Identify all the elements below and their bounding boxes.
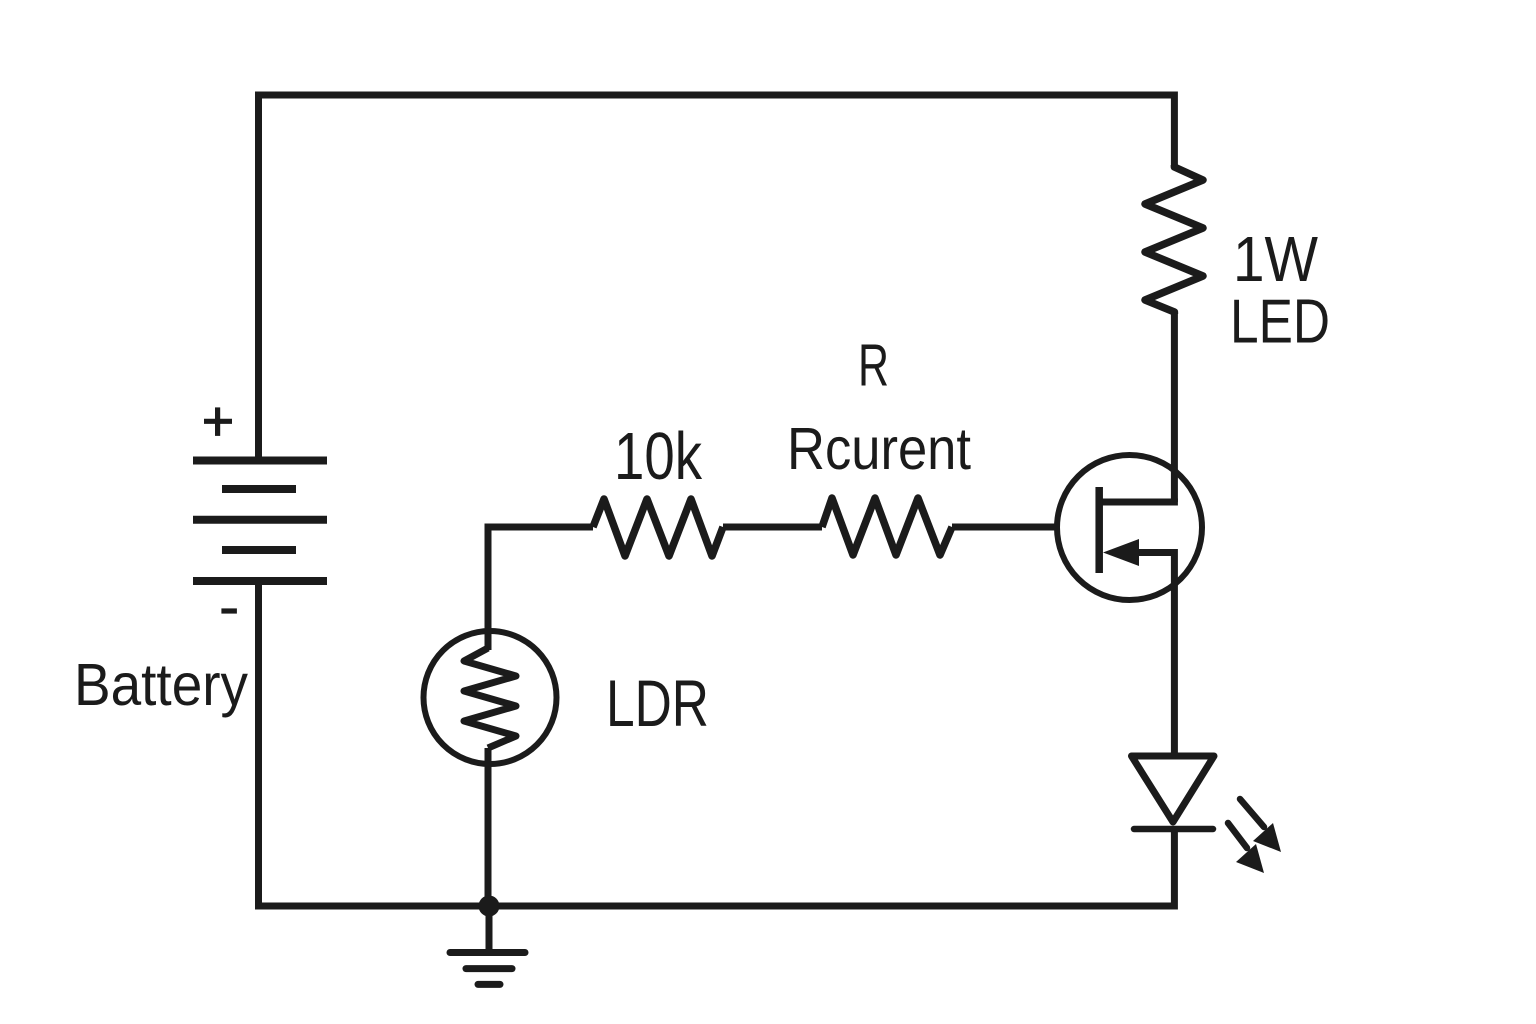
wire resistor to MOSFET drain [1171,313,1178,502]
LDR R3 zigzag element [464,648,516,748]
battery minus label [221,608,237,613]
svg-text:10k: 10k [614,419,702,494]
wire battery negative to bottom rail [255,581,262,906]
LED light arrow 2 [1228,823,1264,873]
svg-text:LDR: LDR [606,666,709,740]
MOSFET Q1 body circle [1057,455,1202,600]
resistor R1 Rcurent [822,498,952,555]
node junction dot [479,896,500,917]
wire MOSFET source to LED anode [1171,549,1178,756]
battery plus label [204,407,232,436]
wire gate rail: LDR corner to 10k [488,527,593,531]
wire top rail and left/right verticals [259,95,1175,460]
MOSFET Q1 gate bar [1095,487,1103,573]
wire LDR to bottom rail [485,748,492,906]
wire gate corner down to LDR [485,527,492,650]
MOSFET Q1 source bar with arrow [1136,549,1174,556]
svg-text:R: R [858,333,889,399]
resistor R2 10k [593,499,723,556]
wire between resistors [723,524,822,531]
LED light arrow 1 [1240,799,1281,852]
LED D1 cathode bar [1134,826,1213,833]
wire Rcurent to MOSFET gate [952,524,1056,531]
resistor R-LED (vertical, top right) [1145,165,1203,314]
MOSFET Q1 drain bar [1102,499,1174,503]
LDR R3 circle [424,631,557,764]
svg-text:Battery: Battery [74,652,248,718]
svg-text:Rcurent: Rcurent [787,416,971,482]
wire bottom rail [255,829,1178,910]
svg-text:1W: 1W [1233,223,1319,295]
wire ground stub [486,906,493,951]
svg-text:LED: LED [1230,288,1330,357]
ground [450,953,525,985]
battery B1 [193,461,327,582]
LED D1 triangle [1132,756,1215,822]
